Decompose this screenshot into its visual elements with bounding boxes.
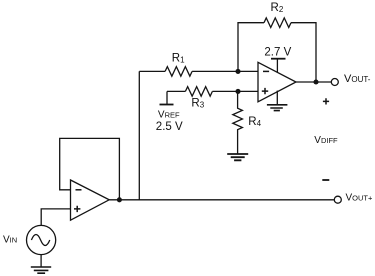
VREF terminal — [166, 91, 168, 104]
svg-text:VOUT-: VOUT- — [344, 73, 371, 85]
svg-text:R1: R1 — [172, 52, 185, 64]
U1 minus input symbol — [76, 189, 82, 191]
svg-text:VIN: VIN — [3, 235, 17, 246]
source VIN circle — [26, 225, 55, 254]
wire R3 net from VREF corner to U2 non-inverting input — [167, 90, 258, 92]
node R2/output junction — [313, 79, 318, 84]
wire vertical from buffer output node up to R1 — [138, 71, 140, 199]
svg-text:VREF: VREF — [158, 110, 180, 121]
U1 plus input symbol — [74, 206, 80, 212]
wire U1 feedback loop — [60, 138, 120, 199]
svg-text:VDIFF: VDIFF — [314, 135, 338, 146]
wire U1 plus input to VIN source — [41, 209, 70, 226]
label VDIFF plus sign — [323, 98, 329, 104]
U2 ground — [276, 91, 278, 105]
svg-text:R2: R2 — [271, 2, 284, 14]
node R1/R2 junction — [235, 69, 240, 74]
svg-text:2.7 V: 2.7 V — [264, 47, 291, 59]
source VIN sine wave — [31, 235, 49, 246]
svg-text:R4: R4 — [248, 116, 261, 128]
svg-text:VOUT+: VOUT+ — [346, 193, 374, 204]
wire U1 output to VOUT+ terminal — [109, 199, 334, 201]
op-amp U2 — [258, 62, 296, 102]
op-amp U1 buffer — [71, 180, 110, 220]
wire U2 output to VOUT- terminal — [296, 81, 331, 83]
ground below VIN — [31, 267, 51, 273]
U2 2.7V supply terminal — [276, 59, 278, 72]
node R3/R4 junction — [235, 89, 240, 94]
resistor R4 — [233, 91, 243, 154]
terminal VOUT- open circle — [331, 79, 338, 86]
wire R1 net from corner to U2 inverting input — [139, 70, 258, 72]
U2 minus input symbol — [263, 70, 269, 72]
resistor R2 — [264, 18, 291, 28]
resistor R3 — [185, 87, 212, 97]
node buffer output junction — [117, 197, 122, 202]
wire VIN source to ground — [40, 255, 42, 267]
terminal VOUT+ open circle — [334, 196, 341, 203]
U2 plus input symbol — [262, 88, 268, 94]
resistor R1 — [165, 67, 192, 77]
ground below R4 — [227, 154, 248, 160]
svg-text:2.5 V: 2.5 V — [156, 121, 183, 133]
wire R2 feedback loop — [238, 23, 316, 82]
svg-text:R3: R3 — [191, 98, 204, 110]
label VDIFF minus sign — [322, 179, 329, 181]
